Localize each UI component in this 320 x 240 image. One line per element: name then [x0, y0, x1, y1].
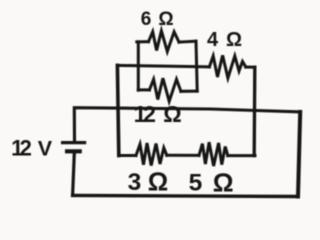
svg-text:2: 2 — [143, 101, 156, 127]
label 12 ohm — [134, 101, 182, 127]
resistor R5 5 ohm zigzag — [199, 142, 228, 166]
resistor R2 4 ohm zigzag — [209, 55, 245, 78]
label 12 V — [11, 136, 53, 161]
box bottom edge right segment — [181, 90, 197, 93]
svg-text:3: 3 — [128, 169, 142, 196]
box bottom edge left segment — [138, 88, 149, 91]
svg-text:6: 6 — [141, 9, 152, 30]
wire from 5 ohm to right vertical — [228, 154, 255, 157]
wire vertical right node B (crosses battery wire) — [253, 67, 257, 155]
svg-text:V: V — [38, 137, 53, 161]
box right edge wire — [196, 41, 197, 91]
box top edge right segment — [179, 40, 196, 44]
svg-text:Ω: Ω — [163, 101, 181, 127]
resistor R1 6 ohm zigzag — [149, 31, 180, 52]
label 3 ohm — [128, 168, 169, 196]
wire from 4-ohm resistor to right corner — [246, 66, 255, 69]
wire between 3 ohm and 5 ohm — [167, 154, 199, 157]
wire bottom — [73, 195, 298, 196]
svg-text:2: 2 — [20, 136, 32, 161]
svg-text:Ω: Ω — [226, 29, 242, 51]
label 4 ohm — [207, 29, 242, 51]
wire middle-top from node A through box to 4-ohm resistor — [117, 65, 209, 66]
box top edge left segment — [137, 40, 149, 43]
wire battery top lead and middle wire to top-right corner — [74, 108, 300, 141]
label 5 ohm — [189, 167, 234, 197]
battery B1 top plate (long) — [61, 141, 86, 144]
wire battery bottom lead — [73, 153, 75, 195]
resistor R3 12 ohm zigzag — [149, 78, 181, 101]
svg-text:Ω: Ω — [148, 168, 168, 196]
svg-text:Ω: Ω — [213, 167, 234, 197]
battery B1 bottom plate (short thick) — [65, 149, 82, 153]
box left edge wire — [137, 42, 140, 90]
wire vertical left node A (crosses battery wire) — [117, 65, 118, 155]
label 6 ohm — [141, 9, 174, 30]
resistor R4 3 ohm zigzag — [136, 143, 167, 166]
wire right edge — [298, 112, 300, 197]
wire bottom branch left segment — [119, 154, 136, 157]
svg-text:4: 4 — [207, 29, 219, 51]
svg-text:Ω: Ω — [158, 9, 173, 30]
svg-text:5: 5 — [189, 170, 203, 197]
